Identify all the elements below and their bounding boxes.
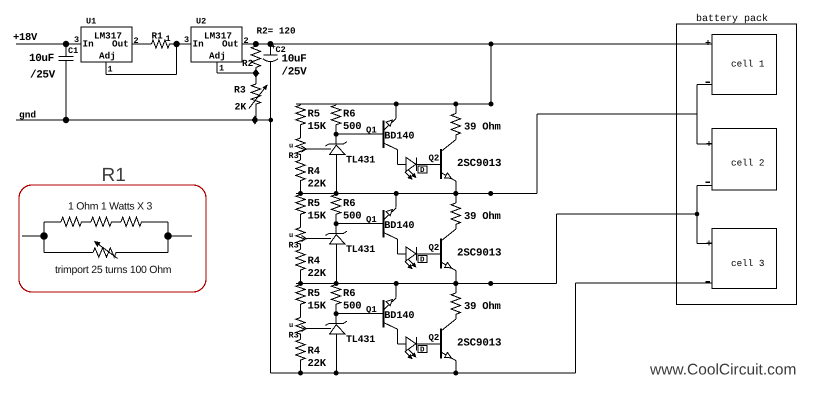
wire Q1 base stage 2 bbox=[336, 223, 383, 225]
svg-text:1 Ohm 1 Watts X 3: 1 Ohm 1 Watts X 3 bbox=[68, 201, 152, 213]
node TL431 anode on rail stage 1 bbox=[334, 191, 339, 196]
resistor R6 stage 2 bbox=[335, 194, 337, 195]
wire cell 2 minus to cell 3 plus bbox=[697, 184, 712, 186]
svg-text:22K: 22K bbox=[308, 358, 327, 370]
node Q2 emitter on bottom rail stage 2 bbox=[453, 281, 458, 286]
resistor R1 bbox=[152, 40, 173, 48]
svg-text:+18V: +18V bbox=[13, 32, 38, 44]
svg-text:u: u bbox=[289, 143, 293, 151]
node R2/R3/Adj junction bbox=[253, 69, 260, 78]
svg-text:15K: 15K bbox=[308, 121, 327, 133]
wire LED to Q2 base stage 3 bbox=[417, 343, 441, 345]
node R4/R5 junction on rail below stage 1 bbox=[298, 191, 303, 196]
svg-text:battery pack: battery pack bbox=[696, 13, 768, 25]
node cell2-/cell3+ tie junction bbox=[695, 212, 700, 217]
svg-text:500: 500 bbox=[343, 301, 361, 313]
shunt regulator TL431 stage 3 bbox=[335, 314, 337, 324]
svg-text:R6: R6 bbox=[343, 109, 356, 121]
trimmer VR stage 2 bbox=[296, 228, 305, 248]
svg-text:2SC9013: 2SC9013 bbox=[457, 247, 501, 259]
svg-text:Q1: Q1 bbox=[366, 126, 377, 136]
svg-text:R1: R1 bbox=[102, 165, 126, 186]
svg-text:R2: R2 bbox=[242, 58, 254, 69]
node U2 out / R2 junction bbox=[253, 41, 259, 47]
wire U2 Adj to R2 bottom bbox=[217, 72, 256, 74]
trimmer VR stage 3 bbox=[296, 318, 305, 338]
svg-text:3: 3 bbox=[74, 35, 79, 45]
svg-text:R5: R5 bbox=[308, 198, 321, 210]
wire stage 3 top rail bbox=[296, 283, 491, 285]
node 39 Ohm top on rail stage 2 bbox=[453, 191, 458, 196]
wire cell 1 minus to cell 2 plus bbox=[697, 84, 712, 86]
svg-text:TL431: TL431 bbox=[346, 335, 375, 346]
node TL431 anode on rail stage 2 bbox=[334, 281, 339, 286]
pin - of cell 1 bbox=[706, 81, 711, 83]
node TL431 anode on rail stage 3 bbox=[334, 371, 339, 376]
node Q1 emitter on top rail stage 2 bbox=[394, 191, 399, 196]
node 39 Ohm top on rail stage 1 bbox=[453, 102, 458, 107]
resistor R2 bbox=[251, 46, 260, 71]
wire ground down to bottom rail bbox=[269, 120, 271, 373]
resistor R5 stage 3 bbox=[300, 284, 302, 285]
resistor R4 stage 3 bbox=[300, 338, 302, 340]
trimmer VR stage 1 bbox=[296, 138, 305, 158]
trimmer wiper arrow stage 2 bbox=[306, 238, 331, 240]
node C2 bottom junction on ground bbox=[269, 118, 274, 123]
battery cell 2 bbox=[712, 129, 777, 190]
node stage rail 3 interconnect junction bbox=[488, 281, 493, 286]
trimmer resistor bottom branch bbox=[44, 252, 93, 254]
svg-text:Q1: Q1 bbox=[366, 305, 377, 315]
LED D label box stage 2 bbox=[418, 255, 427, 262]
svg-text:R5: R5 bbox=[308, 109, 321, 121]
battery pack enclosure bbox=[677, 24, 797, 304]
wire stage 1 top rail bbox=[296, 103, 491, 105]
svg-text:TL431: TL431 bbox=[346, 245, 375, 256]
op-amp U1 LM317 regulator bbox=[81, 27, 132, 62]
node Q2 emitter on bottom rail stage 3 bbox=[453, 371, 458, 376]
svg-text:Adj: Adj bbox=[209, 51, 226, 62]
svg-text:D: D bbox=[420, 167, 425, 175]
wire stage 2 return rail to cell 2 minus bbox=[491, 283, 556, 285]
node R1/U2/Adj junction bbox=[173, 41, 179, 47]
svg-text:2SC9013: 2SC9013 bbox=[457, 337, 501, 349]
capacitor C2 polarized bbox=[267, 41, 273, 47]
svg-text:Q2: Q2 bbox=[429, 333, 440, 343]
svg-text:Q1: Q1 bbox=[366, 215, 377, 225]
node 39 Ohm top on rail stage 3 bbox=[453, 281, 458, 286]
svg-text:cell 3: cell 3 bbox=[731, 258, 764, 269]
transistor Q1 BD140 stage 2 bbox=[383, 210, 385, 237]
svg-text:R5: R5 bbox=[308, 288, 321, 300]
svg-text:C1: C1 bbox=[68, 46, 78, 56]
svg-text:BD140: BD140 bbox=[384, 221, 414, 232]
transistor Q2 2SC9013 stage 3 bbox=[440, 329, 442, 359]
node Q1 emitter on top rail stage 3 bbox=[394, 281, 399, 286]
svg-text:U1: U1 bbox=[86, 17, 96, 27]
resistor 39 Ohm stage 3 bbox=[455, 284, 457, 294]
svg-text:10uF: 10uF bbox=[282, 54, 307, 66]
node stage 1 top rail feed junction bbox=[489, 102, 494, 107]
svg-text:cell 1: cell 1 bbox=[731, 59, 765, 70]
svg-text:trimport 25 turns 100 Ohm: trimport 25 turns 100 Ohm bbox=[55, 264, 172, 276]
svg-text:Out: Out bbox=[112, 39, 129, 50]
LED D stage 3 bbox=[397, 343, 406, 345]
svg-text:D: D bbox=[420, 347, 425, 355]
svg-text:R6: R6 bbox=[343, 288, 356, 300]
transistor Q1 BD140 stage 3 bbox=[383, 300, 385, 327]
LED light arrows stage 1 bbox=[405, 172, 411, 178]
svg-text:Out: Out bbox=[222, 39, 239, 50]
trimmer wiper arrow stage 3 bbox=[306, 328, 331, 330]
LED D stage 2 bbox=[397, 253, 406, 255]
svg-text:Q2: Q2 bbox=[429, 243, 440, 253]
svg-text:R6: R6 bbox=[343, 198, 356, 210]
svg-text:Adj: Adj bbox=[99, 51, 116, 62]
svg-text:15K: 15K bbox=[308, 211, 327, 223]
wire R1 to U2 In bbox=[173, 43, 192, 45]
node out rail / stage 1 feed junction bbox=[489, 42, 494, 47]
wire stage 1 return rail to cell 1 minus bbox=[491, 193, 537, 195]
svg-text:R3: R3 bbox=[289, 331, 299, 341]
svg-text:500: 500 bbox=[343, 121, 361, 133]
pin + of cell 2 bbox=[706, 143, 711, 145]
pin - of cell 2 bbox=[706, 181, 711, 183]
resistor series string 1 Ohm x3 top branch bbox=[44, 221, 61, 223]
resistor 39 Ohm stage 1 bbox=[455, 104, 457, 114]
svg-text:Q2: Q2 bbox=[429, 154, 440, 164]
resistor R6 stage 3 bbox=[335, 284, 337, 285]
resistor R4 stage 2 bbox=[300, 248, 302, 250]
annotation box R1 detail bbox=[19, 185, 206, 292]
node R6/TL431/Q1 base junction stage 3 bbox=[334, 311, 339, 316]
svg-text:R1: R1 bbox=[152, 31, 164, 42]
battery cell 1 bbox=[712, 34, 777, 94]
svg-text:R3: R3 bbox=[234, 85, 246, 96]
svg-text:2K: 2K bbox=[235, 102, 247, 113]
svg-text:u: u bbox=[289, 322, 293, 330]
wire R1 detail left lead bbox=[22, 235, 44, 237]
resistor 39 Ohm stage 2 bbox=[455, 194, 457, 204]
wire U2 Out rail to battery cell 1 + bbox=[242, 43, 712, 45]
svg-text:39 Ohm: 39 Ohm bbox=[464, 121, 501, 133]
svg-text:R3: R3 bbox=[289, 241, 299, 251]
LED D stage 1 bbox=[397, 163, 406, 165]
svg-text:R3: R3 bbox=[289, 151, 299, 161]
svg-text:/25V: /25V bbox=[282, 67, 308, 79]
potentiometer R3 bbox=[255, 73, 257, 84]
svg-text:R4: R4 bbox=[308, 256, 321, 268]
svg-text:22K: 22K bbox=[308, 179, 327, 191]
wire Q1 base stage 3 bbox=[336, 313, 383, 315]
node R1 detail right node bbox=[164, 232, 172, 240]
wire bottom rail stage 3 bbox=[270, 372, 575, 374]
transistor Q2 2SC9013 stage 2 bbox=[440, 239, 442, 269]
wire ground rail bbox=[16, 119, 271, 121]
wire cell 3 minus return bbox=[575, 283, 577, 373]
svg-text:R2= 120: R2= 120 bbox=[257, 26, 296, 37]
battery cell 3 bbox=[712, 228, 777, 288]
LED light arrows stage 3 bbox=[405, 352, 411, 358]
svg-text:TL431: TL431 bbox=[346, 156, 375, 167]
svg-text:u: u bbox=[289, 232, 293, 240]
wire R1 detail loop bbox=[43, 222, 45, 253]
wire +18V input to U1 In bbox=[16, 43, 81, 45]
svg-text:R4: R4 bbox=[308, 166, 321, 178]
wire LED to Q2 base stage 1 bbox=[417, 163, 441, 165]
node R4/R5 junction on rail below stage 2 bbox=[298, 281, 303, 286]
node Q1 emitter on top rail stage 1 bbox=[394, 102, 399, 107]
capacitor C1 bbox=[65, 44, 67, 57]
svg-text:22K: 22K bbox=[308, 268, 327, 280]
op-amp U2 LM317 regulator bbox=[191, 27, 242, 62]
svg-text:cell 2: cell 2 bbox=[731, 158, 764, 169]
svg-text:2SC9013: 2SC9013 bbox=[457, 158, 501, 170]
node R4/R5 junction on rail below stage 3 bbox=[298, 371, 303, 376]
pin 1 stub of U2 Adj bbox=[216, 62, 218, 73]
node Q2 emitter on bottom rail stage 1 bbox=[453, 191, 458, 196]
pin + of cell 3 bbox=[706, 242, 711, 244]
node R6/TL431/Q1 base junction stage 1 bbox=[334, 132, 339, 137]
shunt regulator TL431 stage 1 bbox=[335, 134, 337, 144]
trimmer wiper arrow stage 1 bbox=[306, 148, 331, 150]
svg-text:BD140: BD140 bbox=[384, 311, 414, 322]
svg-text:1: 1 bbox=[108, 65, 113, 75]
svg-text:500: 500 bbox=[343, 211, 361, 223]
pin - of cell 3 bbox=[706, 281, 711, 283]
node ground junction at C1 bbox=[63, 117, 69, 123]
wire stage 2 top rail bbox=[296, 193, 491, 195]
transistor Q2 2SC9013 stage 1 bbox=[440, 149, 442, 179]
svg-text:1: 1 bbox=[166, 34, 171, 44]
node stage rail 2 interconnect junction bbox=[488, 191, 493, 196]
svg-text:15K: 15K bbox=[308, 301, 327, 313]
wire R1 detail right lead bbox=[168, 235, 192, 237]
svg-text:10uF: 10uF bbox=[29, 53, 54, 65]
node input junction bbox=[63, 41, 69, 47]
resistor R4 stage 1 bbox=[300, 158, 302, 160]
svg-text:In: In bbox=[193, 39, 205, 50]
svg-text:1: 1 bbox=[219, 64, 224, 74]
svg-text:3: 3 bbox=[184, 35, 189, 45]
resistor R5 stage 1 bbox=[300, 104, 302, 105]
svg-text:U2: U2 bbox=[196, 17, 206, 27]
node R1 detail left node bbox=[40, 232, 48, 240]
wire Q1 base stage 1 bbox=[336, 133, 383, 135]
wire U1 Adj feedback bbox=[106, 74, 177, 76]
LED D label box stage 1 bbox=[418, 166, 427, 173]
pin + of cell 1 bbox=[705, 41, 710, 43]
resistor R6 stage 1 bbox=[335, 104, 337, 105]
svg-text:R4: R4 bbox=[308, 346, 321, 358]
svg-text:/25V: /25V bbox=[30, 70, 56, 82]
node R3 bottom junction bbox=[252, 116, 259, 125]
svg-text:In: In bbox=[83, 39, 95, 50]
svg-text:www.CoolCircuit.com: www.CoolCircuit.com bbox=[649, 362, 796, 379]
resistor R5 stage 2 bbox=[300, 194, 302, 195]
transistor Q1 BD140 stage 1 bbox=[383, 121, 385, 148]
wire LED to Q2 base stage 2 bbox=[417, 253, 441, 255]
svg-text:BD140: BD140 bbox=[384, 132, 414, 143]
svg-text:D: D bbox=[420, 257, 425, 265]
svg-text:39 Ohm: 39 Ohm bbox=[464, 301, 501, 313]
node R6/TL431/Q1 base junction stage 2 bbox=[334, 221, 339, 226]
LED D label box stage 3 bbox=[418, 345, 427, 352]
svg-text:gnd: gnd bbox=[19, 110, 36, 121]
wire U1 Out to R1 bbox=[132, 43, 152, 45]
LED light arrows stage 2 bbox=[405, 262, 411, 268]
wire out rail feed to stage 1 bbox=[490, 44, 492, 104]
shunt regulator TL431 stage 2 bbox=[335, 224, 337, 234]
trimmer wiper arrow bbox=[97, 243, 118, 258]
pin 1 stub of U1 Adj bbox=[105, 62, 107, 75]
svg-text:39 Ohm: 39 Ohm bbox=[464, 211, 501, 223]
